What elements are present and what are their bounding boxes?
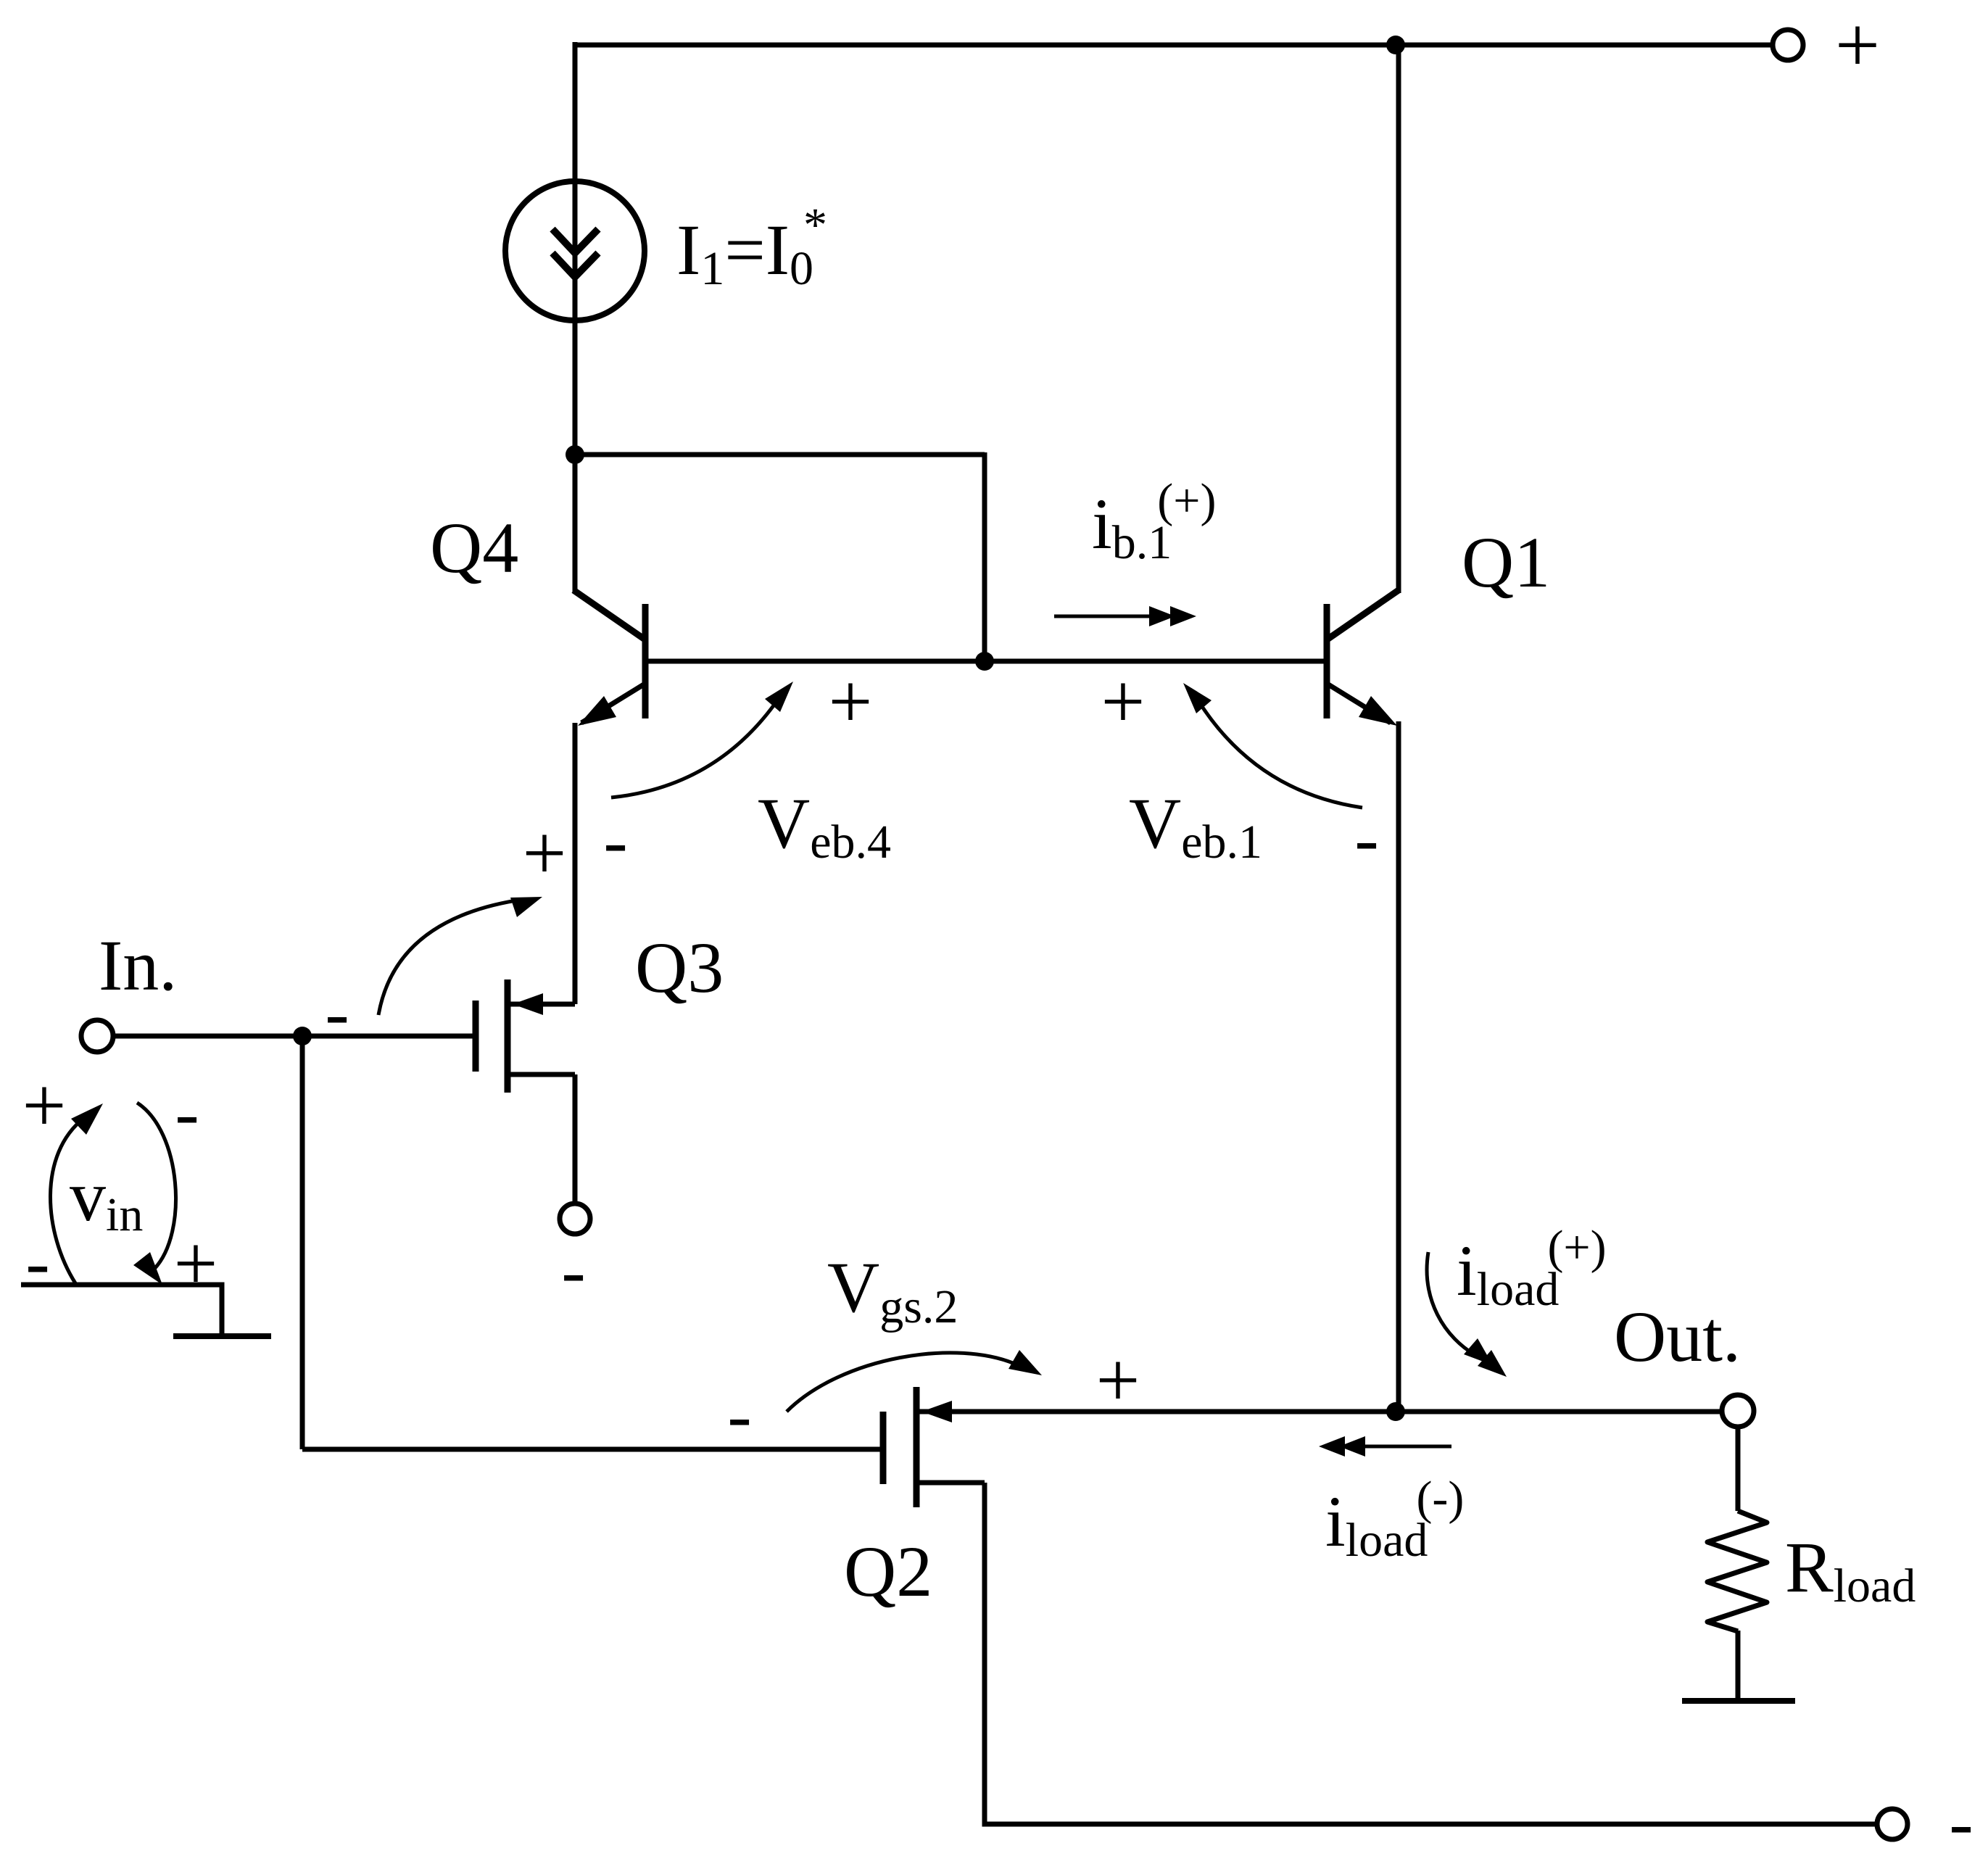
terminal Q3 bottom <box>560 1204 590 1234</box>
svg-text:Q4: Q4 <box>430 508 518 588</box>
transistor Q4 <box>573 590 645 726</box>
current source I1 <box>505 181 645 320</box>
wire top rail <box>573 43 1773 48</box>
arrow V_gs.2 <box>787 1350 1042 1412</box>
transistor Q3 <box>476 979 575 1093</box>
node Out junction <box>1386 1402 1405 1421</box>
node base junction <box>975 652 994 671</box>
svg-text:+: + <box>22 1063 67 1149</box>
arrow i_load (+) <box>1427 1252 1507 1377</box>
svg-text:Out.: Out. <box>1614 1296 1741 1377</box>
ground R_load <box>1682 1698 1795 1704</box>
svg-text:+: + <box>1835 1 1880 89</box>
svg-text:+: + <box>174 1221 218 1307</box>
arrow V_eb.1 <box>1183 683 1362 808</box>
svg-text:+: + <box>523 811 567 897</box>
svg-text:-: - <box>1949 1783 1973 1863</box>
wire In <box>113 1034 473 1039</box>
terminal Out <box>1722 1395 1754 1427</box>
node top-right junction <box>1386 36 1405 54</box>
arrow v_in left <box>50 1103 103 1283</box>
svg-text:In.: In. <box>99 925 177 1006</box>
svg-text:-: - <box>325 973 349 1053</box>
wire v_in ground lead <box>21 1285 222 1336</box>
svg-text:-: - <box>175 1073 199 1153</box>
wire Q2 gate <box>302 1447 880 1452</box>
wire Q4 emitter to Q3 source <box>573 723 578 1004</box>
svg-text:-: - <box>561 1231 585 1312</box>
svg-text:Q1: Q1 <box>1462 522 1550 602</box>
svg-text:Q2: Q2 <box>844 1531 932 1612</box>
node A (source / Q4 collector junction) <box>566 445 584 464</box>
arrow i_load (-) <box>1319 1436 1451 1457</box>
wire right supply drop (Q1 collector) <box>1396 42 1401 593</box>
node In junction <box>293 1027 312 1045</box>
wire In drop <box>300 1036 305 1449</box>
svg-text:+: + <box>1101 659 1146 745</box>
transistor Q2 <box>883 1387 1721 1507</box>
arrow v_in right <box>133 1103 176 1285</box>
svg-text:-: - <box>603 801 627 882</box>
wire Q3 drain down <box>573 1074 578 1204</box>
svg-text:Q3: Q3 <box>635 927 724 1008</box>
wire base Q4 to Q1 <box>648 659 1325 664</box>
terminal - supply <box>1877 1809 1908 1839</box>
arrow V_eb.4 <box>611 682 793 798</box>
svg-text:I1=I0*: I1=I0* <box>676 199 827 295</box>
svg-text:+: + <box>1096 1338 1140 1424</box>
svg-text:-: - <box>727 1375 751 1456</box>
terminal + supply <box>1773 30 1803 60</box>
transistor Q1 <box>1327 590 1399 726</box>
terminal In <box>81 1020 113 1052</box>
wire left supply drop <box>573 42 578 593</box>
wire Q2 source drop <box>985 1483 1877 1824</box>
arrow i_b.1 <box>1054 606 1196 626</box>
svg-text:-: - <box>25 1222 49 1303</box>
arrow V_gs.3 <box>378 897 542 1015</box>
wire diode connection top <box>575 452 985 457</box>
wire Q1 emitter to Out node <box>1396 721 1401 1412</box>
resistor R_load <box>1707 1427 1767 1699</box>
svg-text:-: - <box>1354 799 1378 879</box>
ground v_in <box>173 1333 271 1339</box>
wire diode connection drop <box>982 452 987 661</box>
svg-text:+: + <box>829 659 873 745</box>
